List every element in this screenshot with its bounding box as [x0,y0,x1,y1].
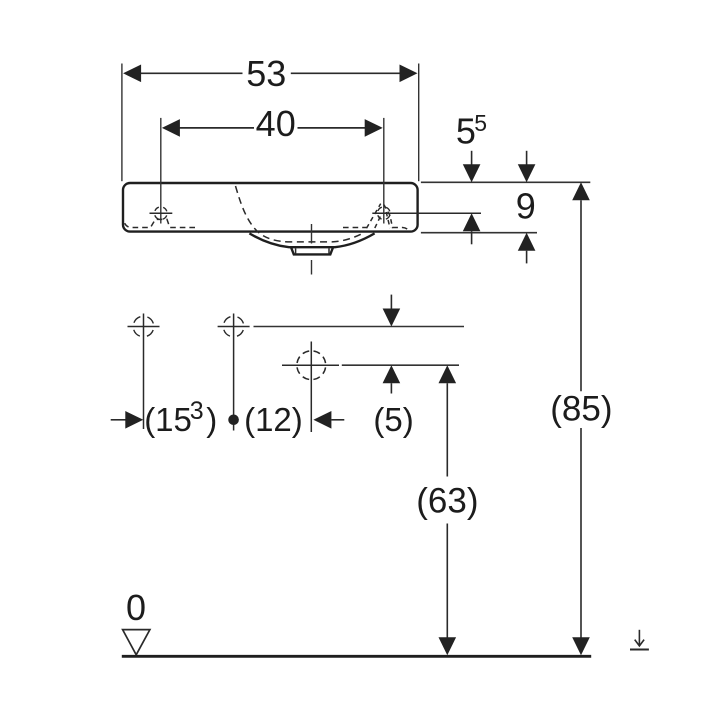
floor level symbol [630,630,649,650]
label 40 [256,103,296,144]
fixing hole right cross [218,314,250,431]
label (5) [373,401,413,438]
drain centerline [311,224,313,275]
svg-text:3: 3 [190,397,204,425]
svg-text:(12): (12) [244,401,303,438]
dimension 40 line [179,127,366,129]
svg-text:(5): (5) [373,401,413,438]
tap hole cross right and 5.5 reference line [372,212,481,214]
dimension 53 arrow left [123,65,141,83]
chain dimension dot [228,415,239,426]
fixing hole right dashed circle [223,316,244,337]
bottom reference line right [421,232,537,234]
dimension 15.3 arrow [111,411,144,429]
label (63) [416,482,478,521]
tap hole dashed circle right [378,207,391,220]
fixing hole left dashed circle [133,316,154,337]
dimension 5 arrow down [383,295,401,327]
datum triangle [123,630,150,655]
dimension 9 arrow up [518,233,536,264]
dimension 85 line with arrows [572,182,590,655]
dimension 5.5 arrow down [463,151,481,183]
svg-text:(85): (85) [550,389,612,428]
dimension 9 arrow down [518,151,536,183]
svg-text:5: 5 [456,111,476,152]
basin outline [123,183,418,232]
drain outlet cross horizontal [282,364,339,366]
label 0 [126,587,146,628]
ground line [122,655,591,658]
dimension 53 extension line right [418,64,420,182]
label (15 exp 3) [144,397,217,438]
svg-text:40: 40 [256,103,296,144]
label 9 [516,186,536,227]
soap shelf mound dashed right [367,204,393,229]
svg-text:0: 0 [126,587,146,628]
drain trap outline [291,247,333,254]
deck hidden edge dashed right [343,228,409,232]
drain outlet cross vertical [310,342,312,433]
fixing hole left cross [128,314,160,430]
svg-text:(63): (63) [416,482,478,521]
dimension 12 arrow [313,411,344,429]
dimension 5.5 arrow up [463,213,481,244]
svg-text:(15: (15 [144,401,192,438]
dimension 53 arrow right [400,65,418,83]
drain level reference line [342,364,459,366]
deck hidden edge dashed left [125,219,196,227]
bowl hidden edge dashed arc [236,186,364,242]
drain outlet dashed circle [297,351,326,380]
dimension 53 line [140,72,400,74]
tap hole cross left [150,212,173,214]
svg-text:): ) [206,401,217,438]
label 53 [246,53,286,94]
bowl visible curve [249,233,374,247]
tap hole centerline right [383,118,385,224]
fixing hole level reference line [254,326,465,328]
drain trap inner lines [296,248,329,253]
dimension 53 extension line left [121,64,123,182]
svg-text:53: 53 [246,53,286,94]
dimension 40 arrow right [365,119,383,137]
svg-text:5: 5 [474,110,487,136]
tap hole dashed circle left [155,207,168,220]
label (85) [550,389,612,428]
label 5 exp 5 [456,110,487,152]
dimension 5 arrow up [383,365,401,393]
dimension 63 line with arrows [439,365,457,655]
tap hole centerline left [160,118,162,224]
label (12) [244,401,303,438]
top reference line right [421,181,590,183]
svg-text:9: 9 [516,186,536,227]
dimension 40 arrow left [162,119,180,137]
